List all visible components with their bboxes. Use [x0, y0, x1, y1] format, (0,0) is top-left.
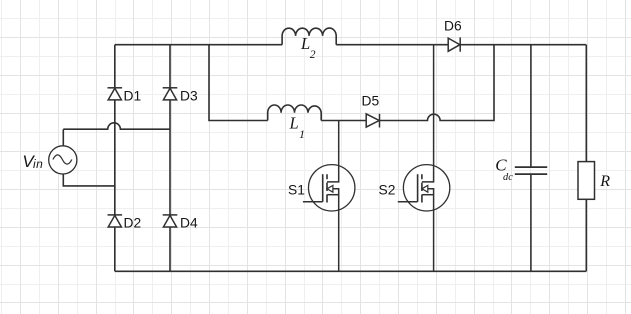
label Cdc — [495, 156, 513, 183]
svg-text:R: R — [599, 173, 610, 190]
diode D2 — [108, 215, 123, 227]
svg-text:D2: D2 — [124, 216, 142, 231]
wire top rail right segment (D6 cathode to right column) — [460, 44, 586, 46]
svg-text:D5: D5 — [362, 93, 380, 108]
diode D5 — [366, 114, 379, 128]
svg-text:dc: dc — [503, 172, 513, 183]
svg-text:L: L — [300, 34, 310, 53]
svg-text:D1: D1 — [124, 88, 142, 103]
mosfet S2 — [398, 45, 450, 272]
wire left column middle (D1 to D2) — [114, 100, 116, 215]
wire R column upper — [585, 45, 587, 162]
diode D1 — [108, 88, 123, 100]
wire L1 out to D5 anode — [321, 120, 366, 122]
diode D6 — [448, 37, 460, 51]
svg-text:S1: S1 — [288, 183, 305, 198]
wire top rail mid segment (L2 out to D6 anode) — [336, 44, 447, 46]
label L2 — [300, 34, 316, 61]
mosfet S1 — [303, 121, 355, 272]
svg-text:D3: D3 — [180, 88, 198, 103]
wire Vin bottom lead — [63, 174, 115, 186]
svg-text:in: in — [33, 157, 43, 171]
svg-text:S2: S2 — [379, 183, 396, 198]
wire D5 cathode to right riser, hop over S2 drain column — [380, 45, 494, 121]
resistor R — [578, 162, 595, 200]
svg-text:D6: D6 — [444, 18, 462, 33]
label Vin — [22, 152, 43, 171]
wire Cdc column upper — [530, 45, 532, 167]
inductor L2 — [282, 28, 336, 45]
wire D3/D4 column lower — [169, 227, 171, 271]
diode D4 — [163, 215, 178, 227]
source Vin — [49, 146, 77, 174]
svg-text:1: 1 — [299, 127, 305, 141]
inductor L1 — [268, 105, 322, 121]
wire Cdc column lower — [530, 174, 532, 271]
wire bottom rail — [115, 270, 587, 272]
wire top rail left segment — [115, 44, 282, 46]
wire R column lower — [585, 199, 587, 271]
wire left column upper (top rail to D1) — [114, 45, 116, 88]
wire D3/D4 column middle — [169, 100, 171, 215]
wire Vin top lead with hop over left column — [63, 123, 170, 146]
wire L1 feed drop from top rail — [209, 45, 268, 121]
svg-text:D4: D4 — [180, 216, 198, 231]
diode D3 — [163, 88, 178, 100]
capacitor Cdc plates — [515, 167, 547, 174]
wire left column lower (D2 to bottom rail) — [114, 227, 116, 271]
label L1 — [289, 113, 306, 141]
svg-text:2: 2 — [310, 49, 316, 61]
svg-text:L: L — [289, 113, 299, 132]
wire D3/D4 column upper — [169, 45, 171, 88]
